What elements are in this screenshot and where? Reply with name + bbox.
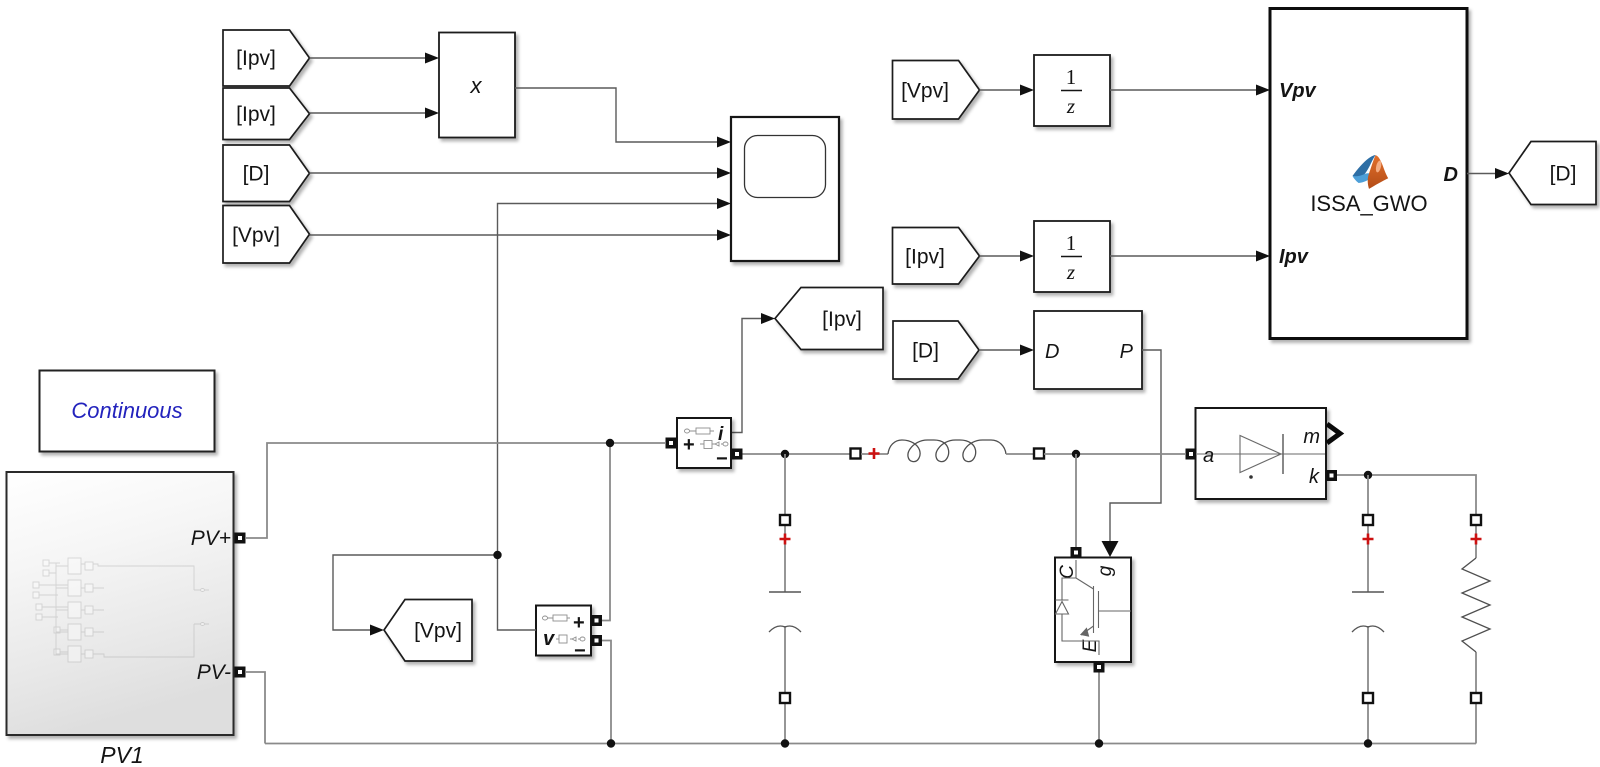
wire IGBT E to bottom rail: [1098, 673, 1100, 744]
svg-text:−: −: [716, 448, 728, 470]
wire i out to inductor: [743, 453, 852, 455]
powergui Continuous: [40, 371, 215, 452]
svg-text:[Vpv]: [Vpv]: [901, 80, 949, 103]
svg-text:z: z: [1066, 260, 1075, 284]
unit delay 1/z (top): [1034, 55, 1110, 126]
wire Ipv tag to unit delay 2: [980, 255, 1021, 257]
wire current measurement to goto Ipv: [731, 319, 761, 433]
svg-text:a: a: [1203, 445, 1214, 467]
svg-text:−: −: [574, 640, 586, 662]
IGBT Q1: [1055, 547, 1131, 673]
svg-text:+: +: [683, 434, 695, 456]
svg-text:v: v: [543, 628, 556, 650]
wire v- to bottom rail: [602, 641, 611, 744]
svg-text:1: 1: [1066, 231, 1077, 255]
wire Ipv1 to product in1: [310, 57, 426, 59]
inductor L1 coil: [888, 440, 1006, 462]
goto tag Ipv (middle): [775, 288, 883, 350]
inductor L terminal left: [851, 449, 861, 459]
wire diode k to output node: [1337, 475, 1476, 515]
diode D1: [1186, 408, 1341, 499]
svg-text:[Ipv]: [Ipv]: [822, 308, 862, 331]
current measurement block i: [666, 418, 743, 470]
svg-text:1: 1: [1066, 65, 1077, 89]
svg-text:g: g: [1095, 565, 1116, 576]
svg-text:ISSA_GWO: ISSA_GWO: [1310, 191, 1427, 216]
svg-text:[D]: [D]: [912, 340, 939, 363]
wire Vpv tag to unit delay: [980, 89, 1021, 91]
goto tag D (top-right): [1509, 142, 1596, 205]
svg-text:z: z: [1066, 94, 1075, 118]
voltage measurement block v: [536, 606, 602, 663]
node IGBT C junction: [1072, 450, 1080, 458]
MATLAB logo: [1353, 155, 1389, 189]
from tag Ipv (top-left 1): [223, 30, 310, 86]
svg-text:PV1: PV1: [100, 742, 143, 767]
port i-: [732, 449, 743, 460]
wire unit delay 2 to ISSA Ipv: [1110, 255, 1256, 257]
port diode m chevron: [1327, 424, 1340, 443]
node rail IGBT E: [1095, 739, 1103, 747]
from tag D (top-left): [223, 145, 310, 202]
svg-text:+: +: [573, 612, 585, 634]
node rail C1: [781, 739, 789, 747]
wire PV+ to current measurement: [246, 443, 665, 538]
wire D tag to PWM D: [979, 349, 1020, 351]
wire D tag to scope in2: [310, 172, 718, 174]
from tag Ipv (right): [893, 228, 980, 285]
wire v out to goto Vpv and scope: [333, 555, 536, 630]
wire inductor to diode a: [1044, 453, 1185, 455]
wire v+ tap: [602, 443, 610, 621]
svg-text:PV+: PV+: [191, 527, 231, 550]
wire PV- to bottom rail: [246, 672, 265, 744]
wire Vpv node to scope in3: [498, 204, 718, 556]
inductor terminal right: [1034, 449, 1044, 459]
resistor R1 load: [1462, 515, 1490, 744]
port i+: [666, 438, 677, 449]
svg-text:[Ipv]: [Ipv]: [236, 47, 276, 70]
svg-text:C: C: [1057, 565, 1078, 579]
svg-text:[D]: [D]: [243, 163, 270, 186]
node rail C2: [1364, 739, 1372, 747]
svg-text:Continuous: Continuous: [71, 398, 182, 423]
port IGBT C: [1071, 547, 1082, 558]
svg-text:PV-: PV-: [197, 661, 231, 684]
goto tag Vpv (middle): [384, 600, 472, 662]
subsystem PV1: [7, 472, 246, 767]
wire junction to IGBT C: [1075, 454, 1077, 547]
scope: [731, 117, 839, 261]
svg-text:[Ipv]: [Ipv]: [236, 103, 276, 126]
label + inductor: [869, 448, 880, 459]
from tag Vpv (top-left): [223, 206, 310, 264]
svg-text:D: D: [1045, 341, 1059, 363]
node rail v-: [607, 739, 615, 747]
capacitor C1: [769, 454, 801, 744]
svg-text:[Vpv]: [Vpv]: [414, 620, 462, 643]
port IGBT E: [1094, 662, 1105, 673]
svg-text:D: D: [1444, 164, 1458, 186]
svg-text:Ipv: Ipv: [1279, 246, 1310, 268]
wire unit delay to ISSA Vpv: [1110, 89, 1256, 91]
svg-text:x: x: [470, 73, 483, 98]
port diode k: [1326, 470, 1337, 481]
from tag Vpv (top-right): [893, 61, 980, 120]
wire product out to scope in1: [515, 88, 717, 142]
wire Vpv tag to scope in4: [310, 234, 718, 236]
svg-text:[Vpv]: [Vpv]: [232, 224, 280, 247]
node cap2 junction: [1364, 471, 1372, 479]
wire inductor lead right: [1006, 453, 1034, 455]
svg-text:Vpv: Vpv: [1279, 80, 1318, 102]
svg-text:[Ipv]: [Ipv]: [905, 246, 945, 269]
wire PWM P to IGBT g: [1110, 350, 1161, 542]
capacitor C2: [1352, 475, 1384, 744]
wire Ipv2 to product in2: [310, 112, 426, 114]
node v measurement junction: [493, 551, 501, 559]
unit delay 1/z (bottom): [1034, 221, 1110, 292]
wire ISSA D out to goto D: [1467, 173, 1496, 175]
port diode a: [1186, 449, 1197, 460]
from tag D (middle): [893, 321, 979, 379]
port v+: [591, 615, 602, 626]
svg-text:m: m: [1303, 426, 1320, 448]
port v-: [591, 635, 602, 646]
wire bottom rail: [265, 743, 1476, 745]
node cap1 junction: [781, 450, 789, 458]
wire inductor lead left: [861, 453, 888, 455]
node v+ junction: [606, 439, 614, 447]
svg-text:[D]: [D]: [1550, 163, 1577, 186]
from tag Ipv (top-left 2): [223, 88, 310, 140]
product block x: [439, 33, 515, 138]
MATLAB function block ISSA_GWO U1: [1270, 9, 1467, 339]
svg-text:P: P: [1120, 341, 1134, 363]
svg-text:k: k: [1309, 466, 1320, 488]
PWM generator block D/P: [1034, 311, 1142, 389]
